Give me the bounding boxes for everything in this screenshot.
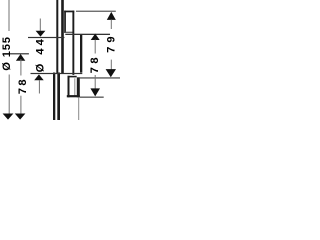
bottom rectangle bottom edge: [67, 95, 80, 97]
ref line y53 (centerline tick): [9, 53, 29, 54]
dim dia44 arrow up: [34, 74, 44, 80]
dim 78 right stem upper: [95, 40, 96, 54]
dim dia44 stem top: [40, 19, 41, 32]
dim 78 right arrow up: [91, 34, 100, 40]
top rectangle (handle cap) top edge: [64, 11, 74, 13]
plate bar lower-left: [53, 73, 55, 121]
bottom rectangle right edge: [74, 78, 75, 97]
ref line y11 right: [76, 11, 116, 12]
svg-text:78: 78: [89, 54, 101, 74]
dim 79 right stem lower: [111, 60, 112, 70]
dim 79 right arrow down: [106, 69, 116, 77]
top rectangle left edge: [64, 11, 66, 33]
dim 78 right arrow down: [90, 88, 100, 96]
thick bar right of bottom rectangle: [77, 77, 80, 97]
plate bar upper-right: [61, 0, 64, 74]
dim dia155 stem top: [9, 0, 10, 31]
ref line y73 (dia44 bottom): [31, 73, 83, 74]
gray extension line bottom center: [78, 97, 79, 120]
dim 78 left stem lower: [20, 96, 21, 114]
dim 79 right arrow up: [107, 12, 116, 20]
bottom rectangle left edge: [68, 76, 70, 98]
plate bar lower-right: [57, 73, 60, 121]
ref line y97 right: [80, 97, 104, 98]
svg-text:78: 78: [17, 77, 29, 94]
ref line y77.5 right: [79, 77, 120, 78]
dim 78 right stem lower: [95, 75, 96, 89]
bottom rectangle top edge: [68, 76, 77, 78]
dim dia155 arrow down: [3, 114, 14, 120]
ref line y37 (dia44 top): [28, 37, 64, 38]
dim dia44 arrow down: [36, 31, 46, 37]
dim 79 right stem upper: [111, 20, 112, 30]
plate bar upper-left: [56, 0, 58, 73]
dim 78 left arrow down: [15, 114, 26, 120]
dim 78 left stem upper: [20, 59, 21, 76]
ref line y34: [65, 34, 110, 35]
dim dia44 stem bottom: [39, 80, 40, 94]
bar B: [80, 35, 82, 73]
top rectangle bottom edge (gray): [64, 32, 73, 33]
dim dia155 stem bottom: [9, 75, 10, 115]
dim 78 left arrow up: [16, 54, 25, 61]
bar A (handle right edge extended): [72, 11, 74, 75]
svg-text:79: 79: [105, 32, 117, 52]
svg-text:Ø 155: Ø 155: [1, 36, 13, 70]
svg-text:Ø 44: Ø 44: [34, 36, 46, 72]
